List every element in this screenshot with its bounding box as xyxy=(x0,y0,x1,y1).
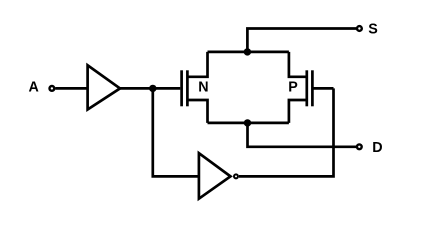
wire A terminal to buffer U1 input xyxy=(55,87,87,90)
junction on top rail xyxy=(244,48,251,55)
inverter U2 xyxy=(199,153,231,199)
junction node after buffer xyxy=(149,85,156,92)
pmos P drain lead (top) xyxy=(289,52,307,77)
wire node down to inverter level xyxy=(153,88,199,176)
nmos N gate bar xyxy=(180,70,183,106)
svg-text:A: A xyxy=(29,80,39,96)
terminal S xyxy=(357,26,362,31)
junction on bottom rail xyxy=(244,119,251,126)
nmos N source lead (bottom) xyxy=(187,100,207,123)
pmos P gate lead xyxy=(312,87,333,90)
top rail wire xyxy=(208,51,289,54)
svg-text:S: S xyxy=(368,22,378,38)
pmos P channel bar xyxy=(305,70,308,106)
wire U2 output to P gate riser xyxy=(239,88,334,176)
nmos N channel bar xyxy=(186,70,189,106)
svg-text:N: N xyxy=(198,80,208,96)
svg-text:P: P xyxy=(288,80,298,96)
wire U1 output to N gate (through node) xyxy=(120,87,180,90)
terminal A xyxy=(50,86,55,91)
inverter U2 output bubble xyxy=(234,174,238,178)
buffer U1 xyxy=(88,65,120,109)
bottom rail wire xyxy=(208,122,289,125)
nmos N drain lead (top) xyxy=(187,52,207,77)
svg-text:D: D xyxy=(372,140,382,156)
wire top rail junction to S terminal xyxy=(247,29,356,52)
wire bottom rail junction to D terminal xyxy=(248,123,357,147)
pmos P gate bar xyxy=(311,70,314,106)
pmos P source lead (bottom) xyxy=(289,100,307,123)
terminal D xyxy=(357,144,362,149)
